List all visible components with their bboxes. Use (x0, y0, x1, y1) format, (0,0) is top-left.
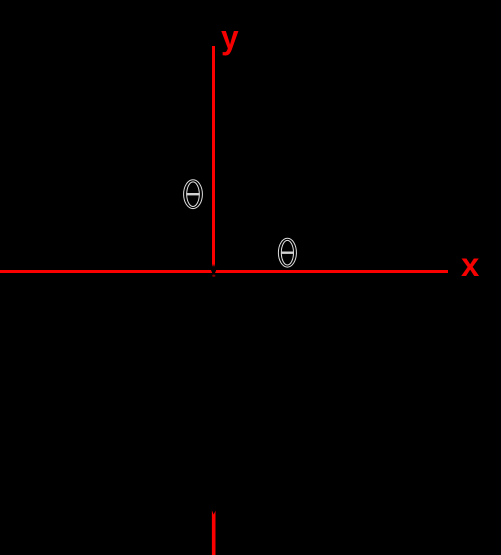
node theta 2 (angle label near x-axis, outlined glyph) (278, 238, 296, 267)
svg-text:x: x (461, 246, 480, 283)
svg-text:y: y (221, 19, 239, 56)
wire negative y-axis bottom segment (red) (212, 510, 216, 555)
arrowhead at origin (black, pointing down over junction) (209, 265, 218, 277)
wire y-axis (positive, red) (212, 46, 215, 269)
arrowhead notch at top of bottom segment (black V) (211, 509, 216, 514)
node dim red dot below origin (212, 275, 215, 277)
node theta 1 (angle label near y-axis, outlined glyph) (184, 180, 203, 209)
wire x-axis (red) (0, 270, 448, 273)
